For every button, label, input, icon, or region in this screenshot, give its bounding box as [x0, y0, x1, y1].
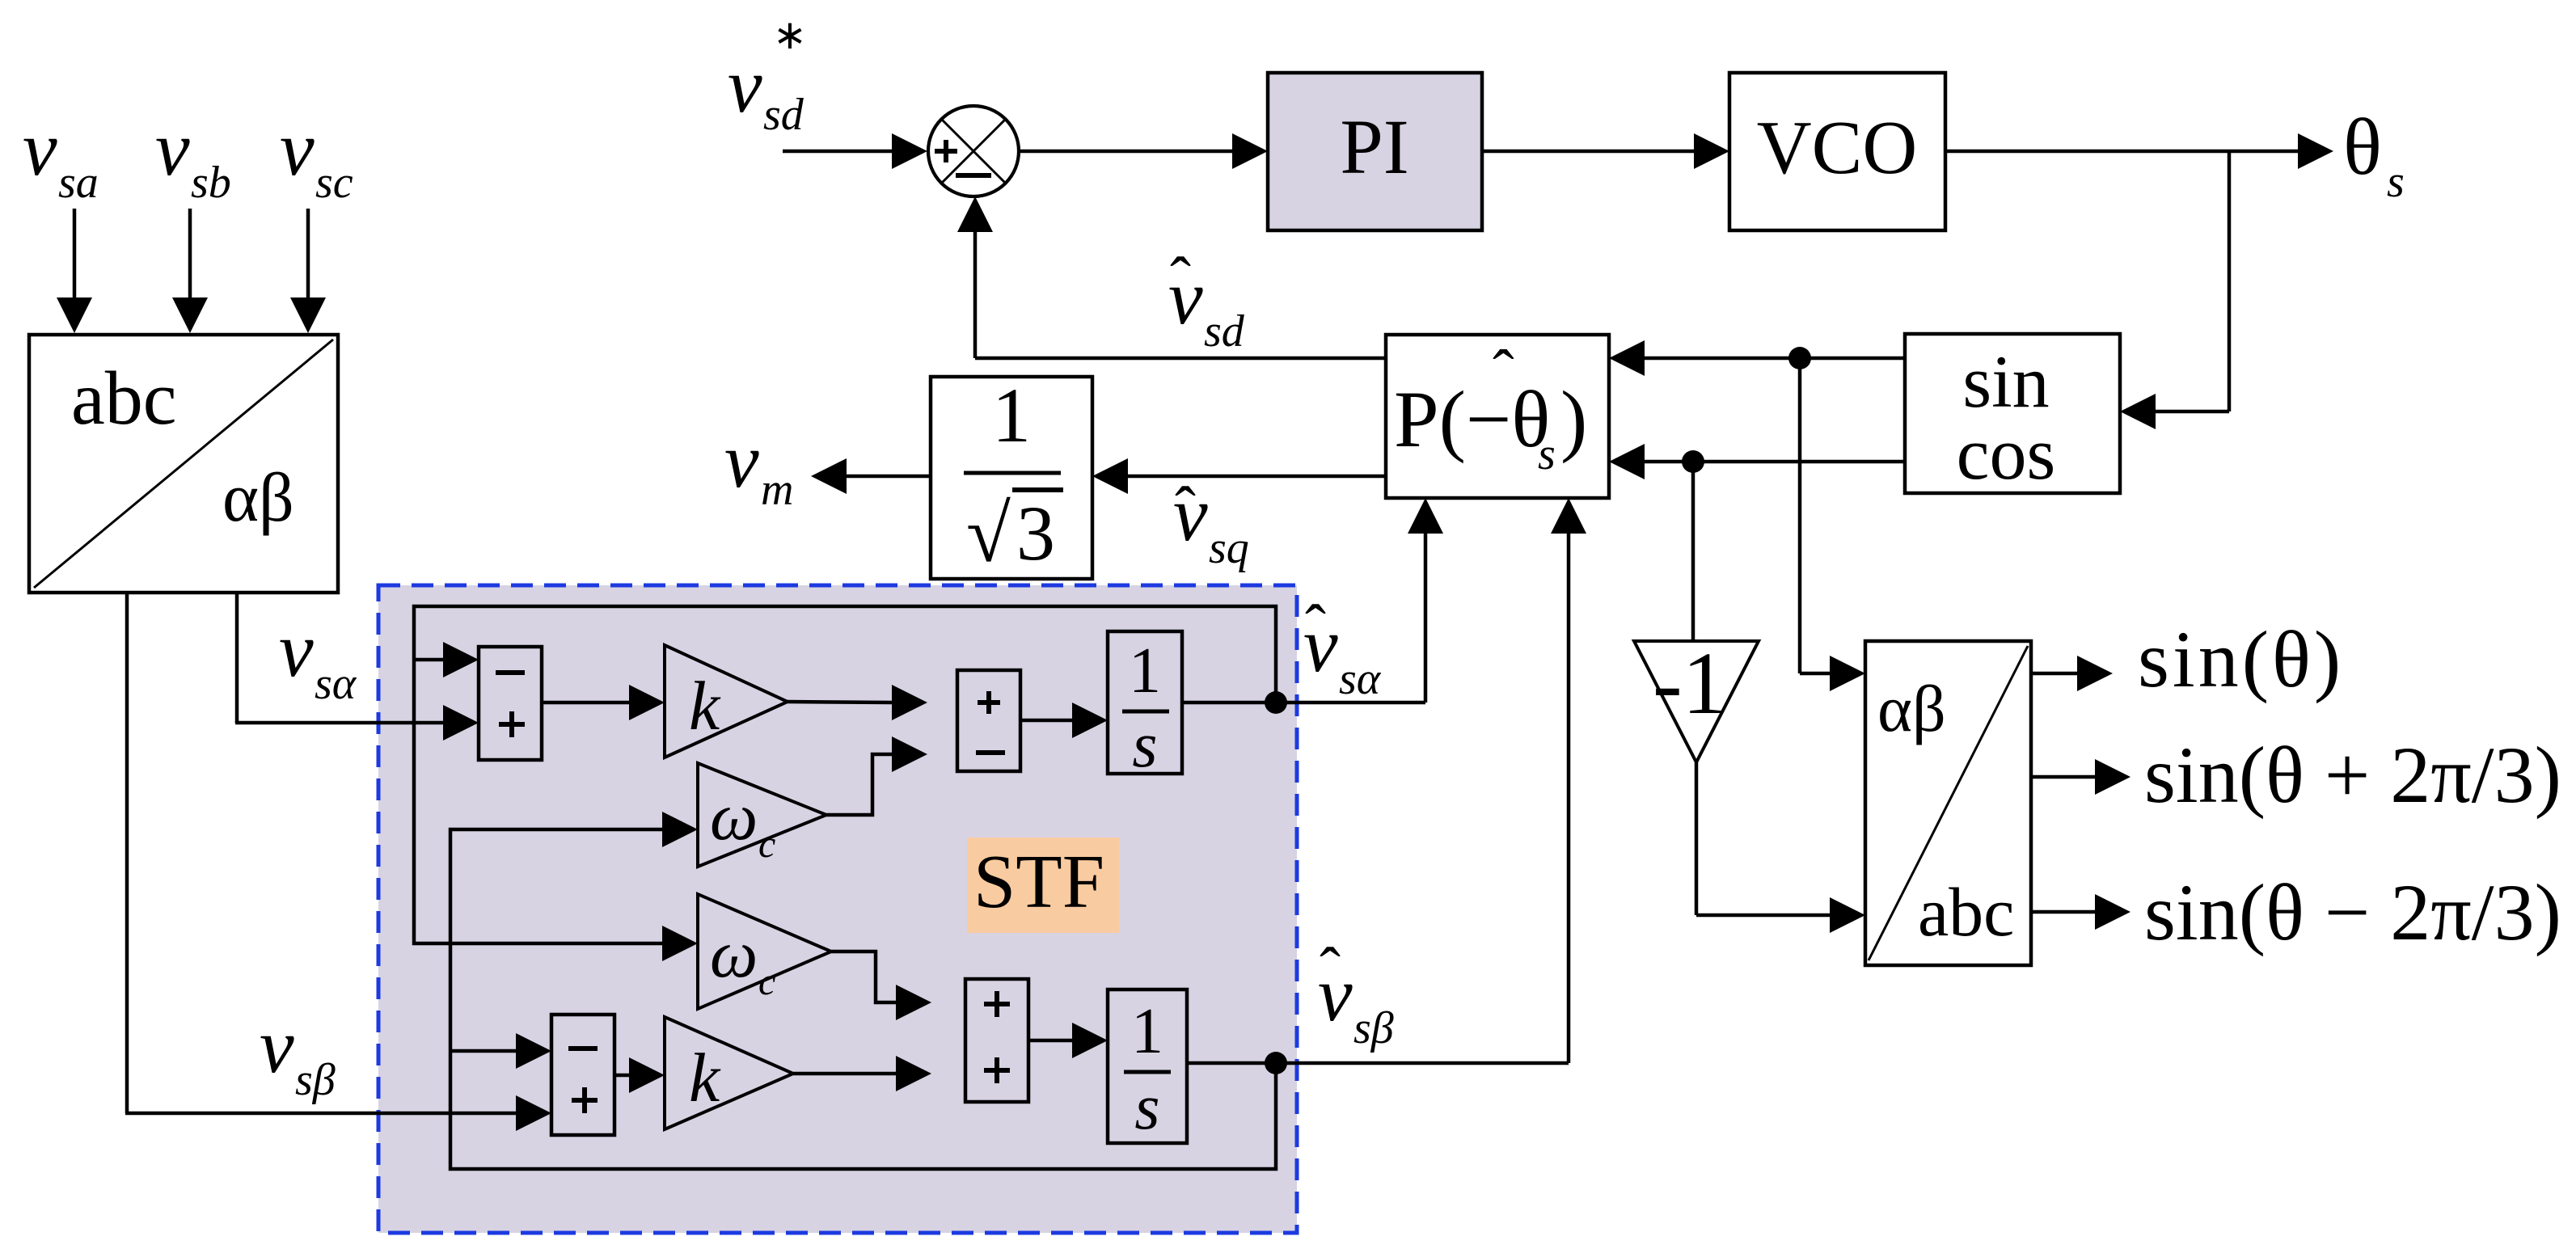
label v_sq estimate [1173, 470, 1249, 573]
wire integrator1 output [1182, 701, 1276, 705]
alpha-beta to abc transform block [1865, 641, 2031, 965]
svg-text:sβ: sβ [1353, 1003, 1394, 1053]
label v_sb [155, 105, 231, 208]
svg-text:αβ: αβ [222, 458, 294, 536]
svg-text:v: v [155, 105, 190, 192]
svg-text:cos: cos [1957, 412, 2056, 495]
svg-text:VCO: VCO [1757, 106, 1917, 190]
svg-text:v: v [280, 105, 315, 192]
svg-text:sin: sin [1962, 340, 2049, 423]
svg-text:sc: sc [315, 158, 353, 208]
svg-text:-1: -1 [1653, 634, 1727, 732]
svg-text:sin(θ + 2π/3): sin(θ + 2π/3) [2144, 730, 2561, 820]
node cos branch [1682, 450, 1704, 473]
svg-text:sin(θ): sin(θ) [2138, 614, 2344, 704]
wire v_m output [811, 458, 931, 494]
wire cos output to P block [1609, 444, 1905, 479]
gain block 1 over sqrt3 [931, 372, 1092, 579]
svg-text:sin(θ − 2π/3): sin(θ − 2π/3) [2144, 867, 2561, 957]
svg-text:k: k [689, 667, 721, 745]
wire v*_sd into summing junction [783, 133, 927, 169]
STF label [967, 838, 1119, 933]
svg-text:v: v [1168, 254, 1203, 340]
wire theta branch down to sin-cos [2120, 151, 2229, 429]
svg-text:s: s [1134, 1072, 1159, 1143]
sin cos block [1905, 334, 2120, 495]
node v_sa-hat junction [1265, 691, 1287, 714]
svg-text:sd: sd [1204, 306, 1245, 357]
summing block sum1 (-,+) [479, 647, 542, 760]
svg-text:ω: ω [710, 917, 758, 992]
svg-text:abc: abc [71, 357, 176, 441]
wire sum2 to integrator1 [1020, 703, 1108, 738]
svg-text:sα: sα [1339, 654, 1382, 704]
node v_sb-hat junction [1265, 1052, 1287, 1074]
svg-text:sα: sα [315, 659, 357, 709]
svg-text:ˆ: ˆ [1493, 338, 1514, 409]
svg-text:1: 1 [1129, 635, 1161, 707]
wire omega-c2 output to sum4 plus top [831, 952, 931, 1020]
svg-text:θ: θ [2343, 102, 2382, 192]
gain k1 triangle [665, 645, 788, 757]
wire k2 to sum4 plus bottom [793, 1056, 931, 1091]
wire P output v_sq to 1/sqrt3 [1092, 458, 1386, 494]
wire sin branch down to alphabeta-abc block [1800, 358, 1865, 691]
svg-text:v: v [279, 606, 314, 693]
summing block sum2 (+,-) [957, 670, 1020, 771]
svg-text:s: s [2387, 157, 2405, 207]
label v*_sd reference [728, 12, 807, 140]
svg-text:1: 1 [992, 372, 1031, 458]
wire summing junction to PI [1019, 133, 1268, 169]
label v_s-alpha [279, 606, 357, 709]
label v_m [724, 417, 793, 515]
svg-text:v: v [1303, 601, 1338, 688]
svg-text:abc: abc [1918, 873, 2014, 951]
wire output sin(theta) [2031, 656, 2113, 691]
label theta_s [2343, 102, 2405, 207]
wire sum4 to integrator2 [1028, 1023, 1108, 1058]
wire v_sa-hat to P block [1276, 498, 1443, 703]
wire output sin(theta+2pi/3) [2031, 759, 2130, 795]
gain k2 triangle [665, 1017, 793, 1129]
svg-text:v: v [260, 1002, 294, 1089]
summing block sum4 (+,+) [965, 979, 1028, 1102]
label v_s-beta [260, 1002, 336, 1105]
VCO block [1729, 73, 1945, 230]
label v_sc [280, 105, 353, 208]
gain omega-c2 triangle [698, 894, 831, 1009]
wire cos branch down to -1 gain [1691, 462, 1696, 639]
svg-text:c: c [758, 960, 775, 1003]
svg-text:v: v [1173, 470, 1208, 557]
svg-text:1: 1 [1131, 996, 1163, 1067]
svg-text:v: v [1318, 951, 1353, 1037]
svg-text:∗: ∗ [773, 12, 807, 57]
summing junction S1 [928, 106, 1019, 196]
svg-text:sβ: sβ [295, 1055, 336, 1105]
svg-text:sa: sa [58, 158, 99, 208]
wire v_s-alpha to sum1 [235, 705, 479, 741]
svg-text:ω: ω [710, 779, 758, 854]
svg-text:s: s [1132, 710, 1157, 781]
wire k1 to sum2 [788, 685, 927, 720]
svg-text:k: k [689, 1039, 721, 1116]
wire v_sd feedback to summing junction [957, 196, 1386, 358]
label v_sa-hat estimate [1303, 592, 1382, 704]
wire integrator2 output [1187, 1061, 1276, 1065]
wire output sin(theta-2pi/3) [2031, 894, 2130, 930]
summing block sum3 (-,+) [551, 1015, 614, 1135]
svg-text:P(−θ: P(−θ [1394, 374, 1550, 464]
svg-text:sb: sb [191, 158, 231, 208]
svg-text:sq: sq [1209, 523, 1249, 573]
abc to alpha-beta transform block [29, 335, 338, 593]
svg-text:PI: PI [1340, 103, 1408, 190]
svg-text:m: m [761, 465, 793, 515]
PI controller block [1268, 73, 1482, 230]
wire abc outputs down [127, 593, 237, 1113]
wire VCO to theta_s output [1945, 133, 2333, 169]
wire v_sa-hat feedback (top) to omega-c2 and sum1 minus [414, 606, 1276, 961]
wire PI to VCO [1482, 133, 1729, 169]
svg-text:s: s [1538, 429, 1556, 479]
wire omega-c1 output to sum2 minus [826, 736, 927, 815]
label v_sd estimate [1168, 244, 1245, 357]
wire v_sb-hat feedback (bottom) to omega-c1 and sum3 minus [450, 812, 1276, 1169]
gain omega-c1 triangle [698, 763, 826, 867]
wire v_s-beta to sum3 [125, 1095, 551, 1131]
wire sin output to P block [1609, 340, 1905, 376]
wire v_sb-hat to P block [1276, 498, 1586, 1063]
label v_sa [23, 105, 99, 208]
svg-text:√: √ [966, 489, 1011, 579]
park transform block P(-theta_s) [1386, 335, 1609, 498]
label v_sb-hat estimate [1318, 935, 1394, 1053]
svg-text:c: c [758, 823, 775, 866]
wire sum3 to gain k2 [614, 1057, 665, 1093]
integrator 1/s block (alpha) [1108, 631, 1182, 781]
svg-text:v: v [724, 417, 759, 504]
svg-text:sd: sd [763, 90, 804, 140]
svg-text:): ) [1560, 374, 1587, 464]
STF filter dashed container [378, 585, 1297, 1233]
svg-text:STF: STF [973, 840, 1104, 924]
node sin branch [1788, 347, 1811, 369]
wire sum1 to gain k1 [542, 685, 665, 720]
svg-text:3: 3 [1016, 490, 1055, 576]
svg-text:v: v [728, 42, 762, 129]
wire v_sc input arrow [290, 209, 326, 333]
svg-text:αβ: αβ [1877, 672, 1946, 745]
wire v_sa input arrow [57, 209, 92, 333]
wire -1 output to alphabeta-abc block [1696, 762, 1865, 933]
gain -1 triangle [1634, 634, 1759, 762]
svg-text:v: v [23, 105, 57, 192]
integrator 1/s block (beta) [1108, 989, 1187, 1143]
wire v_sb input arrow [172, 209, 208, 333]
